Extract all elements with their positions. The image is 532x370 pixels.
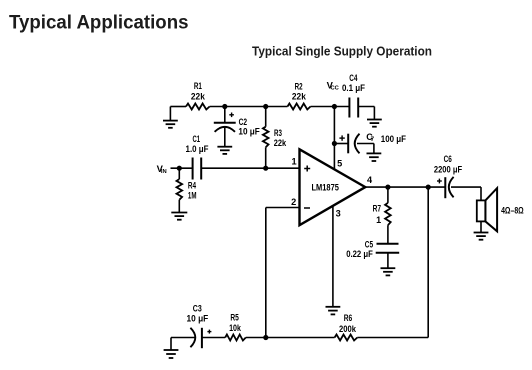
svg-text:C1: C1 — [193, 134, 201, 144]
svg-text:1: 1 — [292, 156, 297, 166]
svg-text:0.22 μF: 0.22 μF — [346, 249, 373, 259]
svg-text:Typical Applications: Typical Applications — [9, 12, 189, 33]
svg-text:100 μF: 100 μF — [381, 134, 407, 144]
svg-text:C6: C6 — [444, 154, 452, 164]
svg-text:4Ω–8Ω: 4Ω–8Ω — [501, 206, 524, 216]
svg-text:4: 4 — [367, 175, 373, 185]
svg-text:LM1875: LM1875 — [312, 183, 339, 193]
svg-text:R5: R5 — [230, 312, 239, 322]
svg-text:C2: C2 — [239, 117, 248, 127]
svg-text:C3: C3 — [193, 304, 202, 314]
svg-text:R2: R2 — [295, 82, 303, 92]
svg-text:200k: 200k — [339, 324, 357, 334]
svg-text:22k: 22k — [274, 138, 287, 148]
svg-text:10k: 10k — [229, 323, 242, 333]
svg-text:R6: R6 — [344, 313, 353, 323]
svg-text:C4: C4 — [349, 73, 357, 83]
svg-text:R3: R3 — [274, 128, 282, 138]
svg-text:0.1 μF: 0.1 μF — [342, 83, 365, 93]
svg-text:1: 1 — [376, 215, 381, 225]
svg-text:10 μF: 10 μF — [238, 127, 260, 137]
svg-text:7: 7 — [371, 136, 375, 143]
svg-text:R7: R7 — [373, 203, 381, 213]
svg-text:10 μF: 10 μF — [187, 314, 209, 324]
svg-text:2: 2 — [291, 197, 296, 207]
svg-text:22k: 22k — [191, 91, 206, 101]
svg-text:1.0 μF: 1.0 μF — [186, 144, 209, 154]
svg-text:1M: 1M — [188, 191, 197, 201]
svg-text:22k: 22k — [292, 92, 307, 102]
svg-text:R1: R1 — [194, 81, 202, 91]
svg-text:5: 5 — [337, 158, 342, 168]
svg-text:IN: IN — [161, 169, 167, 175]
svg-text:Typical Single Supply Operatio: Typical Single Supply Operation — [252, 43, 432, 58]
svg-text:C5: C5 — [365, 239, 373, 249]
svg-text:R4: R4 — [188, 181, 196, 191]
svg-text:3: 3 — [336, 209, 341, 219]
svg-text:CC: CC — [331, 85, 340, 91]
svg-text:2200 μF: 2200 μF — [434, 165, 463, 175]
